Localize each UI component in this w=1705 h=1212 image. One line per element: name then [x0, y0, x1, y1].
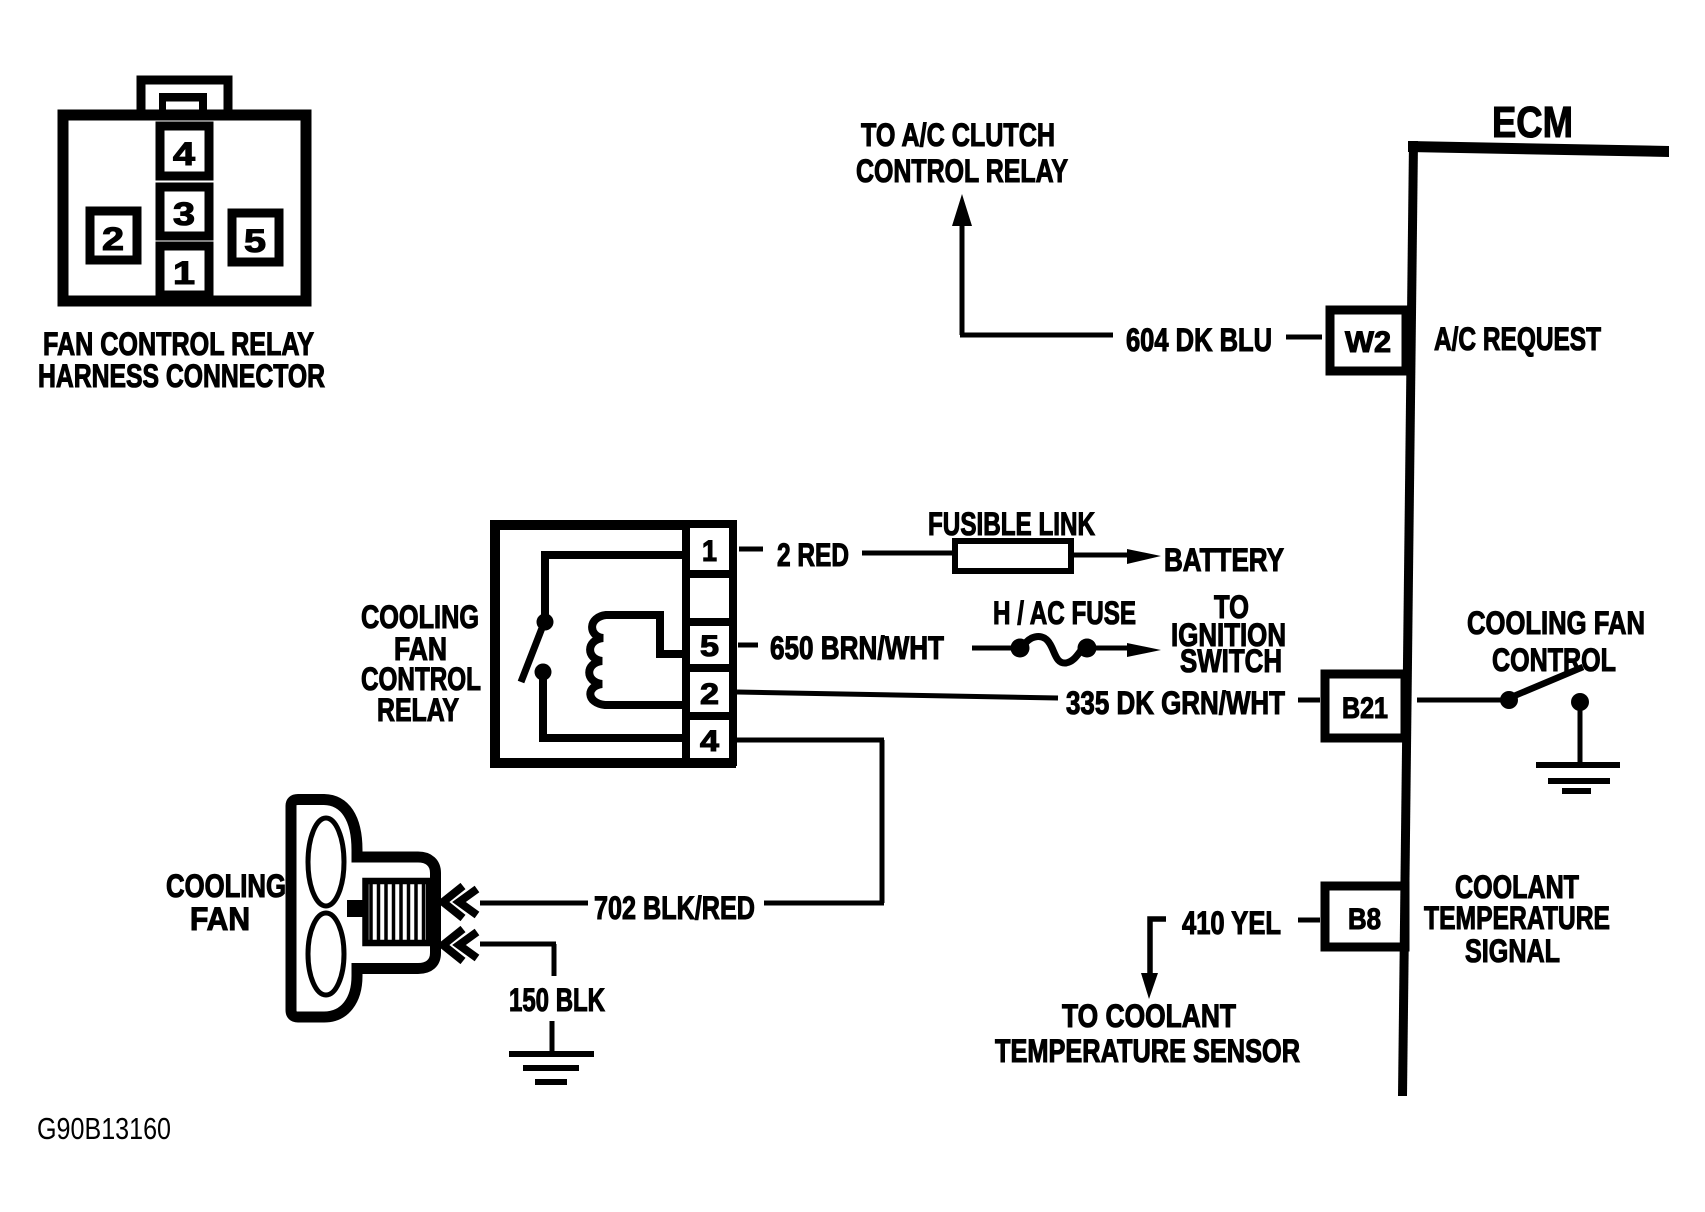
ECM internal switch left contact	[1500, 691, 1518, 709]
wire 410 bracket	[1150, 919, 1166, 976]
svg-text:COOLING: COOLING	[361, 599, 479, 635]
svg-text:W2: W2	[1345, 326, 1391, 359]
svg-text:650 BRN/WHT: 650 BRN/WHT	[770, 630, 944, 666]
svg-text:2 RED: 2 RED	[777, 537, 849, 573]
svg-text:CONTROL: CONTROL	[1492, 642, 1616, 678]
svg-text:FAN CONTROL RELAY: FAN CONTROL RELAY	[43, 326, 314, 362]
svg-text:G90B13160: G90B13160	[37, 1111, 171, 1146]
arrow to coolant temperature sensor	[1141, 973, 1158, 999]
connector J1 cavity 4	[160, 126, 209, 176]
wire 150 vertical upper	[552, 944, 557, 976]
svg-text:4: 4	[173, 136, 195, 172]
fan motor body	[366, 881, 430, 943]
svg-text:SWITCH: SWITCH	[1180, 643, 1282, 679]
svg-text:410 YEL: 410 YEL	[1182, 905, 1281, 941]
svg-text:A/C REQUEST: A/C REQUEST	[1434, 321, 1601, 357]
relay K1 switch lower contact	[535, 664, 552, 681]
motor terminal chevron upper	[443, 886, 463, 918]
fuse F2 wave	[1022, 637, 1085, 664]
connector J1 cavity 3	[160, 187, 209, 236]
wire 702 right segment	[764, 901, 884, 906]
svg-text:5: 5	[244, 223, 266, 259]
svg-text:TEMPERATURE SENSOR: TEMPERATURE SENSOR	[995, 1033, 1300, 1069]
svg-text:FUSIBLE LINK: FUSIBLE LINK	[928, 506, 1095, 542]
svg-text:COOLING FAN: COOLING FAN	[1467, 605, 1645, 641]
cooling fan motor M1 outline	[291, 800, 436, 1018]
wire 150 vertical lower	[550, 1021, 555, 1053]
svg-text:COOLING: COOLING	[166, 868, 286, 904]
svg-text:RELAY: RELAY	[377, 692, 459, 728]
svg-text:HARNESS CONNECTOR: HARNESS CONNECTOR	[38, 358, 325, 394]
relay K1 box	[495, 525, 731, 763]
fan blade upper	[308, 818, 344, 906]
wire 604 vertical	[960, 220, 965, 335]
wire 702 left segment	[480, 901, 588, 906]
wire stub into B21	[1298, 698, 1320, 703]
ground G1	[1536, 762, 1620, 768]
svg-text:TEMPERATURE: TEMPERATURE	[1424, 900, 1610, 936]
svg-text:FAN: FAN	[190, 901, 250, 937]
wire contact to ground	[1578, 708, 1583, 764]
svg-text:B8: B8	[1348, 903, 1381, 936]
ECM internal switch blade	[1514, 667, 1583, 696]
fuse F2 wire left	[972, 646, 1016, 651]
wire 150 horizontal	[480, 942, 556, 947]
fuse F2 arrow to ignition switch	[1094, 646, 1134, 651]
ECM boundary vertical	[1398, 141, 1418, 1096]
wire stub into B8	[1298, 918, 1320, 923]
relay K1 switch blade	[521, 628, 542, 682]
relay K1 internal wire contact to pin4	[543, 672, 686, 738]
fuse F2 left dot	[1011, 639, 1030, 658]
relay K1 internal wire pin1 to switch	[545, 555, 686, 615]
wire stub pin5	[738, 643, 758, 648]
relay K1 pin separator bars	[682, 570, 733, 578]
svg-text:ECM: ECM	[1492, 98, 1573, 147]
wire pin4 to 702	[734, 738, 884, 743]
ECM pin W2	[1330, 310, 1406, 371]
ECM pin B8	[1325, 886, 1405, 947]
svg-text:1: 1	[702, 535, 717, 568]
connector J1 harness tab inner slot	[166, 102, 199, 113]
svg-text:3: 3	[173, 196, 195, 232]
ECM boundary top horizontal	[1408, 141, 1669, 157]
connector J1 harness tab outer	[141, 80, 228, 116]
wire 604 horizontal	[960, 333, 1113, 338]
connector J1 cavity 1	[160, 246, 209, 295]
fan hub link	[347, 900, 363, 917]
svg-text:TO COOLANT: TO COOLANT	[1062, 998, 1236, 1034]
wire stub pin1	[739, 547, 763, 552]
arrow to A/C clutch control relay	[952, 194, 972, 226]
fusible link F1	[955, 541, 1071, 571]
ECM pin B21	[1325, 674, 1405, 738]
svg-text:335 DK GRN/WHT: 335 DK GRN/WHT	[1066, 685, 1285, 721]
svg-text:2: 2	[700, 678, 719, 711]
wire 2 RED to fusible link	[862, 551, 955, 556]
svg-text:4: 4	[700, 725, 719, 758]
ECM internal switch right contact	[1571, 693, 1589, 711]
fan motor windings	[369, 884, 373, 940]
svg-text:B21: B21	[1342, 692, 1388, 725]
svg-text:TO A/C CLUTCH: TO A/C CLUTCH	[861, 117, 1055, 153]
svg-text:2: 2	[102, 221, 124, 257]
relay K1 switch upper contact	[537, 614, 554, 631]
connector J1 body	[63, 115, 306, 301]
ground G2	[509, 1051, 594, 1057]
wire B21 to internal switch	[1417, 698, 1502, 703]
relay K1 coil	[589, 615, 686, 705]
connector J1 cavity 2	[90, 211, 137, 260]
relay K1 coil wire to pin5	[660, 611, 686, 654]
svg-text:150 BLK: 150 BLK	[509, 982, 605, 1018]
svg-text:H / AC FUSE: H / AC FUSE	[993, 595, 1136, 631]
fan blade lower	[308, 913, 344, 995]
motor terminal chevron lower	[443, 929, 463, 961]
connector J1 cavity 5	[232, 213, 279, 262]
svg-text:CONTROL RELAY: CONTROL RELAY	[856, 153, 1068, 189]
svg-text:604 DK BLU: 604 DK BLU	[1126, 322, 1272, 358]
svg-text:SIGNAL: SIGNAL	[1465, 933, 1560, 969]
wire stub into W2	[1286, 335, 1322, 340]
svg-text:1: 1	[173, 255, 195, 291]
svg-text:BATTERY: BATTERY	[1164, 542, 1284, 578]
svg-text:702 BLK/RED: 702 BLK/RED	[594, 890, 755, 926]
fuse F2 right dot	[1078, 639, 1097, 658]
relay K1 pin column	[686, 524, 733, 762]
wire fusible link to battery arrow	[1071, 553, 1136, 558]
connector J1 harness tab inner	[159, 93, 207, 114]
svg-text:5: 5	[700, 630, 719, 663]
wire 702 vertical to pin4	[880, 740, 885, 903]
wire pin2 to B21	[737, 692, 1058, 698]
